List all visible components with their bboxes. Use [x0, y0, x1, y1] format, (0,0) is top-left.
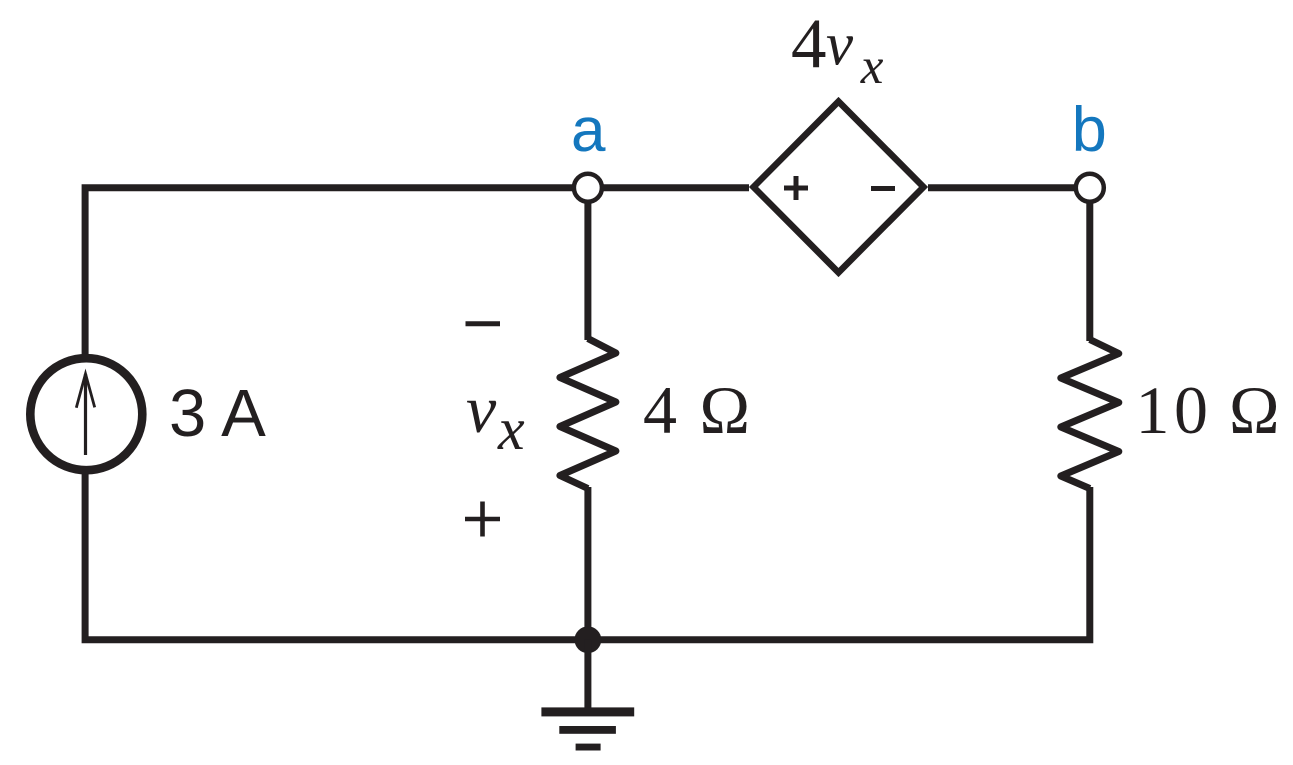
ground stub wire: [584, 640, 591, 710]
wire: top-left corner (left branch up + top wire to diamond left tip): [85, 188, 749, 360]
current source I1 circle: [30, 358, 142, 470]
svg-text:3 A: 3 A: [169, 376, 266, 451]
svg-text:a: a: [571, 96, 606, 165]
plus sign below vx: [465, 502, 500, 537]
wire: 4-ohm resistor bottom to bottom rail: [584, 487, 591, 640]
svg-text:1: 1: [1136, 372, 1170, 448]
svg-text:v: v: [466, 371, 497, 447]
svg-text:v: v: [826, 12, 854, 79]
svg-text:4: 4: [643, 372, 677, 448]
resistor R2 10-ohm zigzag: [1061, 340, 1119, 489]
dependent source U1 diamond 4vx: [754, 102, 924, 273]
plus sign inside diamond: [784, 176, 808, 200]
svg-text:x: x: [497, 396, 525, 462]
current source arrow shaft: [84, 374, 87, 455]
svg-text:0: 0: [1174, 372, 1208, 448]
minus sign inside diamond: [871, 186, 895, 191]
wire: node a stem down to 4-ohm resistor: [584, 188, 591, 340]
svg-text:Ω: Ω: [1229, 372, 1280, 448]
wire: diamond right tip to node b and down to 10-ohm resistor: [928, 188, 1090, 341]
current source arrowhead: [76, 374, 94, 408]
svg-text:4: 4: [791, 5, 827, 83]
node a circle: [574, 174, 602, 202]
ground bar 2: [559, 726, 616, 734]
svg-text:x: x: [860, 39, 884, 95]
resistor R1 4-ohm zigzag: [560, 339, 616, 489]
wire: bottom loop (source bottom, bottom rail, right branch up to 10-ohm resistor): [85, 469, 1090, 640]
node b circle: [1076, 174, 1104, 202]
junction dot: [575, 626, 602, 653]
ground bar 1: [541, 707, 634, 716]
ground bar 3: [576, 744, 601, 751]
svg-text:b: b: [1072, 95, 1107, 165]
svg-text:Ω: Ω: [700, 372, 751, 448]
minus sign above vx: [466, 321, 501, 326]
